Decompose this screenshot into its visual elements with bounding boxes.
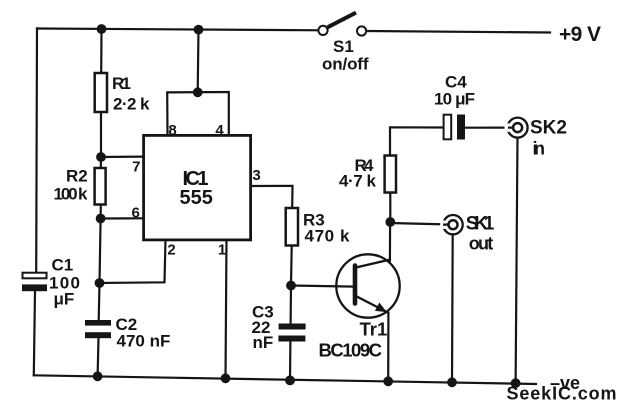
svg-text:SK1: SK1 xyxy=(466,214,495,235)
svg-text:4·7 k: 4·7 k xyxy=(339,172,377,191)
svg-text:3: 3 xyxy=(252,167,260,184)
svg-text:8: 8 xyxy=(168,122,176,139)
svg-text:6: 6 xyxy=(132,205,140,222)
svg-text:C1: C1 xyxy=(52,256,74,275)
svg-text:μF: μF xyxy=(54,290,75,309)
svg-text:4: 4 xyxy=(215,122,224,139)
svg-text:out: out xyxy=(469,234,494,254)
svg-text:on/off: on/off xyxy=(322,55,369,74)
svg-text:R2: R2 xyxy=(66,167,88,186)
svg-text:10 μF: 10 μF xyxy=(434,90,475,109)
svg-text:SK2: SK2 xyxy=(530,118,567,139)
svg-text:1: 1 xyxy=(218,242,226,259)
svg-text:100 k: 100 k xyxy=(54,185,89,204)
svg-text:Tr1: Tr1 xyxy=(360,319,388,340)
svg-text:470 k: 470 k xyxy=(305,227,351,246)
svg-text:2·2 k: 2·2 k xyxy=(113,95,150,114)
svg-text:555: 555 xyxy=(180,187,213,209)
svg-text:–ve: –ve xyxy=(550,373,580,393)
svg-text:R1: R1 xyxy=(112,74,131,93)
svg-text:BC109C: BC109C xyxy=(319,340,383,361)
svg-text:2: 2 xyxy=(167,242,175,259)
svg-text:7: 7 xyxy=(132,159,140,176)
svg-text:in: in xyxy=(533,139,546,159)
svg-text:nF: nF xyxy=(253,333,274,352)
svg-text:S1: S1 xyxy=(333,37,354,56)
svg-text:470 nF: 470 nF xyxy=(117,332,171,351)
svg-text:+9 V: +9 V xyxy=(559,23,601,46)
